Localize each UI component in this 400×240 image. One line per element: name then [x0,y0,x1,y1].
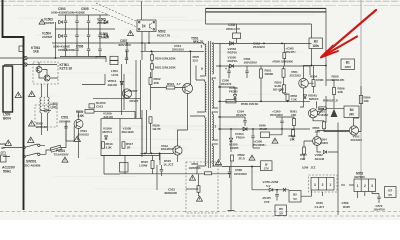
node row y100 [260,100,262,102]
scan grain overlay [0,0,1,1]
dashed feedback box [186,162,218,213]
label 1.02K [151,161,154,169]
wire: live trunk vertical [23,57,25,210]
capacitor C512 [126,51,128,65]
wire: switch drive [151,72,188,110]
capacitor C550 [246,66,248,78]
capacitor bottom mid [161,165,163,176]
wire: mid verticals [122,43,142,118]
wire: secondary row y100 [218,100,310,102]
capacitor bank rails [52,15,115,57]
transistor V513 (in KT501) [36,67,42,73]
transistor V551b [308,109,317,118]
wire: fb links [186,174,231,196]
warning triangle fb A [190,175,196,180]
warning triangle fb B [216,160,222,165]
diode V1506 [104,34,108,37]
resistor R552 [286,94,289,101]
wire: row137 links [253,129,293,148]
dashed isolation line bottom 1 [0,211,400,213]
wire: v512 links [141,110,188,162]
output box B4 24V [344,106,359,118]
warning triangle mid column A [29,121,36,127]
capacitor C572 [378,194,380,204]
wire: right mid links [300,66,361,132]
output box B8 5V [275,205,287,216]
resistor fb [197,186,200,193]
wire: v554 links [304,131,349,161]
transistor V1507 [122,89,131,98]
node row y129 [230,128,232,130]
wire: secondary row y43 [214,42,312,44]
capacitor C565 [229,168,231,178]
wire: row y129 [218,128,310,130]
warning triangle left B [29,91,36,97]
annotation red arrow head [321,46,338,58]
wire: long secondary vertical [337,150,339,215]
wire: vd514 row [82,74,141,99]
wire: v501 connections [66,111,79,158]
wire: rail drop left [206,8,312,38]
transformer T501 primary winding [205,44,206,76]
diode VD514 [120,81,123,84]
wire: row189 [252,171,312,197]
node row189 [276,189,278,191]
diode at v551b [331,109,338,117]
resistor R551 [260,69,263,78]
transistor V511 power switch [183,84,193,94]
transformer T501 core [207,41,209,168]
dashed isolation line bottom 2 [55,215,400,217]
resistor R522 [149,78,152,85]
warning triangle fb C [197,196,203,201]
resistor R550 [283,53,286,59]
warning triangle at opto [128,31,134,36]
control block box [101,119,142,156]
warning triangle bridge left [39,19,45,24]
resistor R560 [226,100,236,103]
output box B3 180V [309,38,323,49]
diode V550 [230,64,234,68]
capacitor column 3 [88,15,90,57]
wire: secondary stubs [212,43,222,166]
wire: bridge left column [55,22,57,58]
fuse FU501 [50,145,61,152]
dashed link to opto A [96,3,137,22]
wire: right verticals [310,38,326,123]
node row1 b [281,43,283,45]
transistor V554 [313,137,322,146]
wire: secondary return bus [219,43,221,160]
warning triangle left A [15,92,22,98]
annotation red arrow shaft [323,10,377,56]
wire: opto down to bus [142,32,149,44]
wire: opto top feed [141,1,143,20]
wire: mains feed thick L [3,0,24,57]
switch SW501 [23,146,26,149]
inductor L508 boxes [110,56,118,60]
wire: fuse to bridge column [61,121,66,148]
transistor V551 [299,78,309,88]
connector X540 body [311,178,334,191]
node: input terminal upper [24,56,27,59]
wire: n552 pins [341,185,379,198]
resistor R556 [333,88,336,95]
wire: lower mid verticals [142,110,151,157]
connector X540 dashed [309,175,338,192]
resistor R524 [166,86,175,89]
wire: r509 row [85,111,135,118]
label R503 rows [141,50,205,52]
wire: +B rail double dark [206,7,327,9]
dashed link to opto B [92,8,137,27]
capacitor C570 [276,190,278,201]
transistor V514 (in KT501) [44,75,50,81]
degaussing coil L509 [3,66,13,112]
wire: row167 [222,167,261,171]
diode V1504 [59,34,63,37]
resistor R552b [282,69,285,78]
capacitor C513 [89,104,95,108]
output box B6 17V [261,161,273,171]
wire: sec ground vertical [228,161,235,211]
resistor R564 [359,96,362,104]
relay KT501 dashed box [33,62,58,84]
wire: line input lower [5,65,58,67]
resistor R565 [323,122,326,129]
connector 3T left edge [1,155,7,162]
wire: primary stubs [190,43,205,174]
component box bottom left [120,163,129,173]
varistor Y1501 [19,46,24,52]
node: bus junction a [141,42,143,44]
output box B7 5V [385,187,397,198]
wire: trunk bottom row [120,154,186,174]
zener VD561 [303,95,306,98]
resistor R513 [102,142,105,149]
startup resistors R520 R521 [151,55,154,61]
output box B5 5V [289,191,301,203]
wire: switch to fuse [40,145,51,154]
line filter choke L503 [40,97,42,113]
optocoupler N502 [137,20,156,32]
wire: line input upper [0,57,96,59]
capacitor column 4 [99,15,101,57]
warning triangle r562 [249,155,255,160]
diode V1503 [59,20,63,23]
warning triangle mid column B [28,137,35,143]
output box B1 120V [341,59,355,70]
warning triangle at fuse [62,157,68,162]
warning triangle x549 [272,138,278,143]
transistor V512 [173,146,182,155]
annotation red arrow extra stroke [323,37,357,57]
capacitor column 2 [76,15,78,57]
diode V552 row1 [230,42,234,46]
resistor R554 [312,80,315,87]
diode V1554 [243,127,247,131]
wire: kt501 links [39,62,58,78]
wire: x540 links [322,192,324,196]
wire: block bottom to trunk [101,156,160,175]
grey bus line right (vertical) [360,0,362,179]
transformer T501 secondary winding [212,44,213,74]
warning triangle right of fuse [74,136,81,142]
node: input terminal lower [24,63,27,66]
diode V1505 [104,20,108,23]
capacitor column 1 [65,15,67,57]
wire: choke connections [42,84,48,135]
wire: mains stub left [3,148,22,157]
scan streaks [45,72,134,74]
regulator N552 [354,179,376,192]
node b3 [311,65,313,67]
capacitor C507 main filter [126,43,128,60]
warning triangle lower left A [5,140,12,146]
wire: rail corner right [325,8,327,38]
wire: bridge to bus [115,42,204,44]
resistor R567 [303,147,306,154]
transistor V501 [74,120,83,129]
snubber dashed box [35,105,57,127]
wire: row y117 [218,116,245,118]
capacitor C561 [228,66,230,78]
wire: b3 drop [303,49,326,66]
node: bus dots [219,65,221,67]
wire: startup to transformer [145,43,190,85]
scan line top border [0,0,400,2]
wire: secondary row y66 [216,65,310,67]
wire: bridge lower rail to filter caps [96,57,106,63]
node row1 a [263,43,265,45]
transistor V552 [349,126,358,135]
grey vertical mid [156,165,158,190]
resistor R517 [122,142,125,149]
